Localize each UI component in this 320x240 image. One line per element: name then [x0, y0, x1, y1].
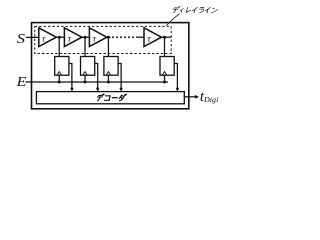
wire: S input [26, 36, 39, 38]
wire: into U4 [136, 36, 144, 38]
wire: E line [26, 81, 169, 83]
wire: decoder output arrow [184, 95, 198, 98]
wire: U4 out stub [162, 36, 172, 38]
wire: FF1 output to decoder [69, 64, 73, 92]
svg-text:Digi: Digi [203, 96, 218, 104]
buffer U4 [144, 28, 162, 47]
svg-text:τ: τ [42, 34, 46, 44]
outer box [32, 23, 189, 109]
i [192, 7, 197, 13]
delay line dashed box [35, 26, 171, 53]
wire: U2 out [82, 36, 90, 38]
node n1 [58, 36, 61, 39]
node n2 [84, 36, 87, 39]
svg-text:τ: τ [68, 34, 72, 44]
leader line to dashed box corner [167, 14, 180, 26]
wire: tap1 down [58, 37, 60, 56]
latch FF1 [55, 57, 69, 76]
wire: FF2 clock [84, 75, 86, 82]
latch FF4 [160, 57, 174, 76]
label: decoder (katakana) [97, 94, 127, 101]
ko [105, 96, 111, 101]
node n4 [163, 36, 166, 39]
svg-text:τ: τ [93, 34, 97, 44]
de [97, 94, 105, 100]
wire: U1 out [56, 36, 64, 38]
svg-text:E: E [16, 75, 27, 90]
wire: FF1 clock [58, 75, 60, 82]
svg-text:τ: τ [147, 34, 151, 44]
n [212, 8, 218, 12]
i [205, 7, 210, 13]
ra [198, 8, 204, 13]
small i [180, 8, 184, 12]
wire: tap4 down [164, 37, 166, 56]
node clk3 [107, 81, 110, 84]
da [119, 94, 127, 101]
svg-text:S: S [17, 31, 26, 47]
wire: FF4 clock [164, 75, 166, 82]
node clk2 [84, 81, 87, 84]
wire: U3 out [107, 36, 111, 38]
re [186, 7, 191, 12]
wire: FF3 clock [107, 75, 109, 82]
latch FF3 [104, 57, 118, 76]
wire: FF4 output to decoder [174, 64, 179, 92]
node clk4 [163, 81, 166, 84]
wire: tap3 down [107, 37, 109, 56]
wire: tap2 down [84, 37, 86, 56]
wire: FF3 output to decoder [118, 64, 122, 92]
de [172, 7, 180, 13]
long dash [112, 97, 117, 99]
buffer U1 [39, 28, 57, 47]
wire: FF2 output to decoder [95, 64, 99, 92]
latch FF2 [81, 57, 95, 76]
decoder box [36, 92, 184, 104]
node n3 [107, 36, 110, 39]
label: delay line (katakana), slanted [172, 7, 218, 13]
buffer U3 [89, 28, 107, 47]
node clk1 [58, 81, 61, 84]
continuation dots [112, 36, 134, 38]
buffer U2 [64, 28, 82, 47]
